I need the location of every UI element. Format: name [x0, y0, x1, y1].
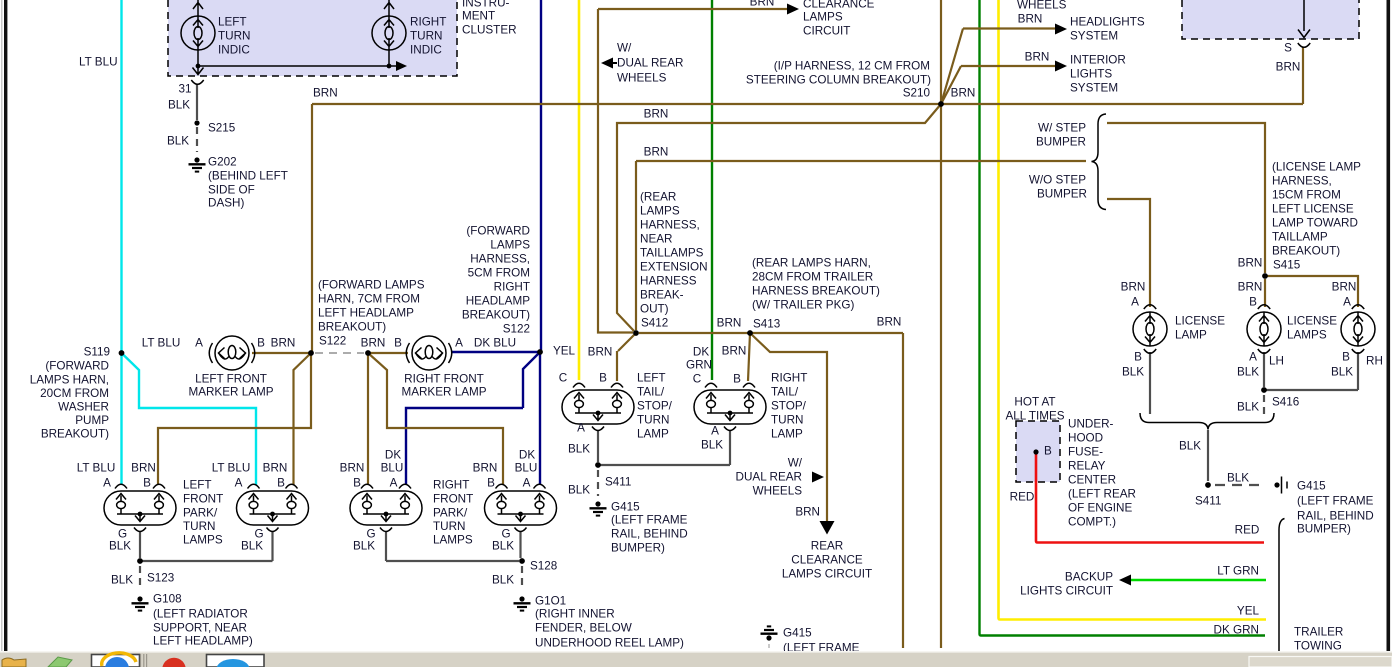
svg-text:CIRCUIT: CIRCUIT [803, 25, 850, 38]
svg-text:(LEFT FRAME: (LEFT FRAME [1297, 495, 1374, 508]
svg-text:RED: RED [1235, 524, 1260, 537]
svg-text:BRN: BRN [951, 87, 976, 100]
svg-text:B: B [1249, 296, 1257, 309]
svg-text:S411: S411 [1195, 495, 1221, 508]
svg-text:B: B [599, 372, 607, 385]
svg-text:A: A [103, 477, 111, 490]
svg-text:BLU: BLU [381, 462, 404, 475]
svg-text:W/: W/ [617, 42, 632, 55]
svg-text:CLEARANCE: CLEARANCE [791, 554, 863, 567]
svg-text:HARN, 7CM FROM: HARN, 7CM FROM [318, 293, 420, 306]
svg-text:A: A [523, 477, 531, 490]
svg-text:LT BLU: LT BLU [79, 56, 118, 69]
svg-text:RIGHT: RIGHT [494, 281, 530, 294]
svg-text:HARNESS BREAKOUT): HARNESS BREAKOUT) [752, 285, 880, 298]
svg-text:BLK: BLK [167, 135, 189, 148]
svg-text:TAIL/: TAIL/ [771, 386, 799, 399]
svg-text:HOOD: HOOD [1068, 432, 1103, 445]
svg-text:LAMP: LAMP [771, 428, 803, 441]
svg-text:TAILLAMP: TAILLAMP [1272, 231, 1328, 244]
svg-text:FRONT: FRONT [183, 493, 223, 506]
svg-text:YEL: YEL [1237, 605, 1260, 618]
svg-text:G1O1: G1O1 [535, 595, 566, 608]
svg-text:C: C [559, 372, 567, 385]
svg-text:TURN: TURN [433, 520, 465, 533]
svg-text:(I/P HARNESS, 12 CM FROM: (I/P HARNESS, 12 CM FROM [774, 60, 930, 73]
svg-text:B: B [143, 477, 151, 490]
svg-text:(LEFT RADIATOR: (LEFT RADIATOR [153, 608, 248, 621]
svg-text:WHEELS: WHEELS [617, 72, 667, 85]
svg-text:S128: S128 [530, 560, 557, 573]
svg-text:G202: G202 [208, 156, 237, 169]
svg-text:BRN: BRN [1121, 281, 1146, 294]
svg-text:LIGHTS: LIGHTS [1070, 68, 1112, 81]
svg-text:DK: DK [693, 346, 709, 359]
svg-text:INDIC: INDIC [218, 44, 250, 57]
svg-text:ALL TIMES: ALL TIMES [1005, 410, 1064, 423]
svg-text:S210: S210 [903, 87, 931, 100]
svg-text:BRN: BRN [1332, 281, 1357, 294]
svg-text:OUT): OUT) [640, 303, 669, 316]
svg-text:LAMP: LAMP [637, 428, 669, 441]
svg-text:PARK/: PARK/ [183, 507, 218, 520]
svg-text:BRN: BRN [588, 346, 613, 359]
svg-text:SIDE OF: SIDE OF [208, 184, 255, 197]
svg-text:CENTER: CENTER [1068, 474, 1116, 487]
svg-text:(REAR LAMPS HARN,: (REAR LAMPS HARN, [752, 257, 871, 270]
svg-text:BREAKOUT): BREAKOUT) [318, 321, 386, 334]
svg-text:TURN: TURN [183, 520, 215, 533]
svg-text:TURN: TURN [410, 30, 442, 43]
svg-text:W/: W/ [788, 457, 803, 470]
svg-text:5CM FROM: 5CM FROM [468, 267, 530, 280]
svg-text:31: 31 [178, 83, 191, 96]
svg-text:G415: G415 [611, 501, 640, 514]
svg-text:BLK: BLK [353, 540, 375, 553]
svg-text:HEADLIGHTS: HEADLIGHTS [1070, 16, 1145, 29]
svg-text:FENDER, BELOW: FENDER, BELOW [535, 622, 632, 635]
svg-text:(FORWARD: (FORWARD [45, 360, 109, 373]
svg-text:BRN: BRN [1025, 51, 1050, 64]
svg-text:TURN: TURN [637, 414, 669, 427]
svg-text:BLK: BLK [492, 574, 514, 587]
svg-text:G415: G415 [783, 627, 812, 640]
svg-text:A: A [1343, 296, 1351, 309]
svg-text:BLK: BLK [1179, 440, 1201, 453]
svg-text:FUSE-: FUSE- [1068, 446, 1103, 459]
svg-text:S416: S416 [1272, 396, 1299, 409]
svg-text:DK GRN: DK GRN [1214, 624, 1259, 637]
svg-text:OF ENGINE: OF ENGINE [1068, 502, 1132, 515]
svg-text:G108: G108 [153, 593, 182, 606]
svg-text:HOT AT: HOT AT [1014, 396, 1055, 409]
svg-text:BRN: BRN [722, 345, 747, 358]
svg-text:LAMPS: LAMPS [803, 11, 843, 24]
svg-text:(BEHIND LEFT: (BEHIND LEFT [208, 170, 288, 183]
svg-text:B: B [353, 477, 361, 490]
svg-text:STOP/: STOP/ [637, 400, 673, 413]
svg-text:LEFT: LEFT [183, 479, 212, 492]
svg-text:(REAR: (REAR [640, 191, 676, 204]
svg-text:20CM FROM: 20CM FROM [40, 387, 109, 400]
svg-text:EXTENSION: EXTENSION [640, 261, 708, 274]
svg-text:LEFT LICENSE: LEFT LICENSE [1272, 203, 1354, 216]
svg-text:C: C [693, 373, 701, 386]
svg-text:RELAY: RELAY [1068, 460, 1106, 473]
svg-text:RIGHT: RIGHT [410, 16, 446, 29]
svg-text:RAIL, BEHIND: RAIL, BEHIND [1297, 510, 1374, 523]
svg-text:HEADLAMP: HEADLAMP [466, 295, 531, 308]
svg-text:HARNESS: HARNESS [640, 275, 697, 288]
svg-text:(RIGHT INNER: (RIGHT INNER [535, 608, 615, 621]
svg-text:HARNESS,: HARNESS, [640, 219, 700, 232]
svg-text:UNDER-: UNDER- [1068, 418, 1114, 431]
svg-text:BLK: BLK [568, 443, 590, 456]
svg-text:S122: S122 [319, 335, 346, 348]
svg-text:BLK: BLK [1237, 366, 1259, 379]
svg-text:CLUSTER: CLUSTER [462, 24, 517, 37]
svg-text:DK BLU: DK BLU [474, 337, 516, 350]
svg-text:BLK: BLK [568, 484, 590, 497]
svg-text:BLK: BLK [1237, 401, 1259, 414]
svg-text:A: A [455, 337, 463, 350]
svg-text:S119: S119 [84, 346, 110, 359]
svg-text:BRN: BRN [340, 462, 365, 475]
svg-text:A: A [1131, 296, 1139, 309]
svg-text:DASH): DASH) [208, 197, 244, 210]
svg-text:LEFT FRONT: LEFT FRONT [195, 373, 267, 386]
svg-text:REAR: REAR [811, 540, 843, 553]
svg-text:TURN: TURN [218, 30, 250, 43]
svg-text:BRN: BRN [750, 0, 775, 9]
svg-text:A: A [1249, 351, 1257, 364]
svg-text:RIGHT FRONT: RIGHT FRONT [404, 373, 484, 386]
svg-text:A: A [711, 425, 719, 438]
svg-text:GRN: GRN [686, 359, 712, 372]
svg-text:LT BLU: LT BLU [77, 462, 116, 475]
svg-text:B: B [487, 477, 495, 490]
svg-text:TURN: TURN [771, 414, 803, 427]
svg-text:RIGHT: RIGHT [433, 479, 469, 492]
svg-text:NEAR: NEAR [640, 233, 672, 246]
svg-text:BUMPER): BUMPER) [611, 542, 665, 555]
svg-text:INDIC: INDIC [410, 44, 442, 57]
svg-text:LICENSE: LICENSE [1175, 315, 1225, 328]
svg-text:BRN: BRN [263, 462, 288, 475]
svg-text:BREAKOUT): BREAKOUT) [41, 428, 109, 441]
svg-text:YEL: YEL [553, 345, 576, 358]
svg-text:LEFT: LEFT [637, 372, 666, 385]
svg-text:TAILLAMPS: TAILLAMPS [640, 247, 704, 260]
svg-text:LIGHTS CIRCUIT: LIGHTS CIRCUIT [1020, 585, 1113, 598]
svg-text:BRN: BRN [644, 108, 669, 121]
svg-text:BLK: BLK [701, 439, 723, 452]
svg-text:LAMPS: LAMPS [433, 534, 473, 547]
svg-text:LT BLU: LT BLU [212, 462, 251, 475]
svg-text:DK: DK [385, 449, 401, 462]
svg-text:DK: DK [519, 449, 535, 462]
svg-text:LEFT HEADLAMP): LEFT HEADLAMP) [153, 635, 253, 648]
svg-text:COMPT.): COMPT.) [1068, 516, 1116, 529]
svg-text:BRN: BRN [361, 337, 386, 350]
svg-text:LT GRN: LT GRN [1217, 565, 1259, 578]
svg-text:B: B [1134, 351, 1142, 364]
svg-text:A: A [235, 477, 243, 490]
svg-text:SUPPORT, NEAR: SUPPORT, NEAR [153, 622, 247, 635]
svg-text:S: S [1284, 42, 1292, 55]
svg-text:BRN: BRN [795, 506, 820, 519]
svg-text:BUMPER: BUMPER [1036, 136, 1086, 149]
svg-text:BRN: BRN [1238, 257, 1263, 270]
svg-text:BRN: BRN [1238, 281, 1263, 294]
svg-text:TRAILER: TRAILER [1294, 626, 1343, 639]
svg-text:A: A [195, 337, 203, 350]
svg-text:(W/ TRAILER PKG): (W/ TRAILER PKG) [752, 299, 854, 312]
svg-text:TAIL/: TAIL/ [637, 386, 665, 399]
svg-text:(LEFT FRAME: (LEFT FRAME [611, 514, 688, 527]
svg-text:A: A [390, 477, 398, 490]
svg-text:BRN: BRN [1018, 13, 1043, 26]
svg-text:INSTRU-: INSTRU- [462, 0, 510, 10]
svg-text:S413: S413 [753, 318, 780, 331]
svg-text:LAMPS HARN,: LAMPS HARN, [30, 374, 109, 387]
svg-text:BRN: BRN [877, 316, 902, 329]
svg-text:DUAL REAR: DUAL REAR [617, 57, 683, 70]
svg-text:(LEFT REAR: (LEFT REAR [1068, 488, 1136, 501]
svg-text:STOP/: STOP/ [771, 400, 807, 413]
svg-text:BRN: BRN [473, 462, 498, 475]
svg-text:B: B [733, 373, 741, 386]
svg-text:BLK: BLK [109, 540, 131, 553]
svg-text:INTERIOR: INTERIOR [1070, 54, 1126, 67]
svg-text:BRN: BRN [131, 462, 156, 475]
svg-text:LAMP: LAMP [1175, 329, 1207, 342]
svg-text:LAMPS: LAMPS [183, 534, 223, 547]
svg-text:BLK: BLK [168, 99, 190, 112]
svg-text:LEFT: LEFT [218, 16, 247, 29]
svg-text:LICENSE: LICENSE [1287, 315, 1337, 328]
svg-text:LAMP TOWARD: LAMP TOWARD [1272, 217, 1358, 230]
svg-text:HARNESS,: HARNESS, [1272, 175, 1332, 188]
svg-text:BLK: BLK [111, 574, 133, 587]
svg-text:BUMPER): BUMPER) [1297, 523, 1351, 536]
svg-text:W/O STEP: W/O STEP [1029, 174, 1086, 187]
svg-text:RIGHT: RIGHT [771, 372, 807, 385]
svg-text:STEERING COLUMN BREAKOUT): STEERING COLUMN BREAKOUT) [746, 74, 931, 87]
svg-text:WHEELS: WHEELS [753, 485, 803, 498]
svg-text:BLU: BLU [515, 462, 538, 475]
svg-text:RAIL, BEHIND: RAIL, BEHIND [611, 528, 688, 541]
svg-text:BRN: BRN [644, 146, 669, 159]
svg-text:(FORWARD LAMPS: (FORWARD LAMPS [318, 279, 425, 292]
svg-text:LAMPS: LAMPS [640, 205, 680, 218]
svg-text:RED: RED [1010, 491, 1035, 504]
svg-text:B: B [394, 337, 402, 350]
svg-text:W/ STEP: W/ STEP [1038, 122, 1086, 135]
svg-text:BREAK-: BREAK- [640, 289, 684, 302]
svg-text:(FORWARD: (FORWARD [466, 225, 530, 238]
svg-text:LAMPS: LAMPS [490, 239, 530, 252]
svg-text:CLEARANCE: CLEARANCE [803, 0, 875, 11]
svg-text:MARKER LAMP: MARKER LAMP [401, 386, 486, 399]
svg-text:S215: S215 [208, 122, 236, 135]
svg-text:S412: S412 [641, 317, 668, 330]
svg-text:BRN: BRN [313, 87, 338, 100]
svg-text:BLK: BLK [1227, 472, 1249, 485]
svg-text:SYSTEM: SYSTEM [1070, 30, 1118, 43]
svg-text:UNDERHOOD REEL LAMP): UNDERHOOD REEL LAMP) [535, 637, 684, 650]
svg-text:B: B [1342, 351, 1350, 364]
svg-text:A: A [577, 422, 585, 435]
svg-text:MARKER LAMP: MARKER LAMP [188, 386, 273, 399]
svg-text:B: B [257, 337, 265, 350]
svg-text:BLK: BLK [241, 540, 263, 553]
svg-text:BRN: BRN [717, 317, 742, 330]
svg-text:BRN: BRN [1276, 61, 1301, 74]
svg-text:S411: S411 [605, 476, 631, 489]
svg-text:BUMPER: BUMPER [1037, 188, 1087, 201]
svg-text:BREAKOUT): BREAKOUT) [1272, 245, 1340, 258]
svg-text:G415: G415 [1297, 480, 1326, 493]
svg-text:LEFT HEADLAMP: LEFT HEADLAMP [318, 307, 414, 320]
svg-text:(LICENSE LAMP: (LICENSE LAMP [1272, 161, 1361, 174]
svg-text:BREAKOUT): BREAKOUT) [462, 309, 530, 322]
svg-text:S415: S415 [1273, 259, 1301, 272]
svg-text:BLK: BLK [492, 540, 514, 553]
svg-text:HARNESS,: HARNESS, [470, 253, 530, 266]
svg-text:LAMPS CIRCUIT: LAMPS CIRCUIT [782, 568, 872, 581]
svg-text:SYSTEM: SYSTEM [1070, 82, 1118, 95]
svg-text:WASHER: WASHER [58, 401, 109, 414]
svg-text:FRONT: FRONT [433, 493, 473, 506]
svg-text:BACKUP: BACKUP [1065, 571, 1113, 584]
svg-text:DUAL REAR: DUAL REAR [736, 471, 802, 484]
svg-text:PARK/: PARK/ [433, 507, 468, 520]
svg-text:WHEELS: WHEELS [1017, 0, 1067, 12]
svg-text:RH: RH [1366, 355, 1383, 368]
svg-text:B: B [1044, 445, 1052, 458]
svg-text:B: B [277, 477, 285, 490]
svg-text:BLK: BLK [1122, 366, 1144, 379]
svg-text:LT BLU: LT BLU [142, 337, 181, 350]
svg-text:PUMP: PUMP [75, 414, 109, 427]
svg-text:MENT: MENT [462, 10, 495, 23]
svg-text:TOWING: TOWING [1294, 640, 1342, 653]
svg-text:LAMPS: LAMPS [1287, 329, 1327, 342]
svg-text:BRN: BRN [271, 337, 296, 350]
svg-text:S123: S123 [147, 572, 174, 585]
svg-text:S122: S122 [503, 323, 530, 336]
svg-text:15CM FROM: 15CM FROM [1272, 189, 1341, 202]
svg-text:BLK: BLK [1331, 366, 1353, 379]
svg-text:28CM FROM TRAILER: 28CM FROM TRAILER [752, 271, 873, 284]
svg-text:LH: LH [1269, 355, 1284, 368]
